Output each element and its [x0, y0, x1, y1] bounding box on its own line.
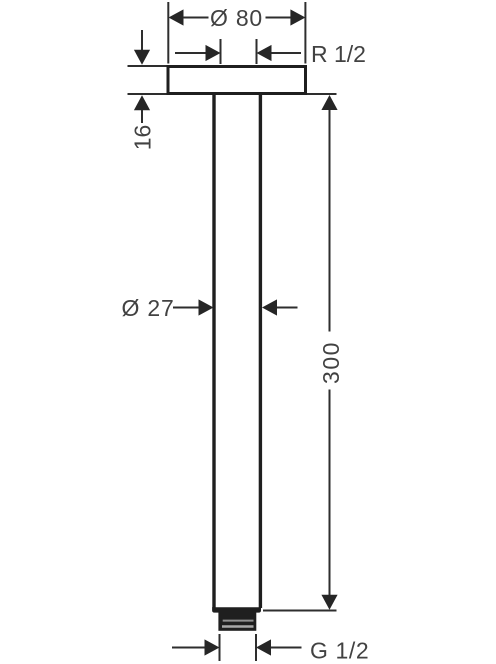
- dimension line 300 lower: [329, 390, 331, 597]
- label dia 80: [210, 5, 263, 31]
- arrow left dia80: [169, 9, 184, 25]
- extension line right R12: [256, 39, 258, 64]
- extension line flange bottom left: [128, 93, 167, 95]
- arrow down 16: [134, 50, 150, 65]
- pipe wall left: [212, 94, 215, 608]
- dimension 16 lower line: [141, 110, 143, 123]
- arrow up 16: [134, 95, 150, 110]
- extension line left G12: [219, 634, 221, 661]
- dimension line R12 right segment: [272, 52, 302, 54]
- label dia 27: [122, 295, 175, 321]
- dimension line dia80 right segment: [266, 17, 292, 19]
- arrow inward right R12: [257, 45, 272, 61]
- svg-text:R 1/2: R 1/2: [311, 41, 366, 67]
- label 300 rotated: [318, 341, 344, 384]
- pipe end cap: [212, 607, 261, 612]
- thread groove lower: [222, 625, 254, 628]
- arrow inward left R12: [206, 45, 221, 61]
- extension line left R12: [220, 39, 222, 64]
- dimension line G12 left segment: [172, 647, 205, 649]
- arrow inward left G12: [205, 639, 220, 655]
- svg-text:G 1/2: G 1/2: [310, 637, 369, 663]
- label 16 rotated: [130, 125, 156, 151]
- arrow inward right G12: [256, 639, 271, 655]
- svg-text:300: 300: [318, 341, 344, 384]
- flange plate: [168, 67, 306, 94]
- extension line flange bottom right: [307, 93, 337, 95]
- leader line dia27 right: [277, 307, 298, 309]
- extension line left of dia80: [167, 2, 169, 64]
- pipe wall right: [259, 94, 262, 608]
- arrow up 300: [321, 95, 337, 110]
- extension line right G12: [255, 634, 257, 661]
- extension line pipe end right: [263, 610, 337, 612]
- arrow down 300: [321, 595, 337, 610]
- dimension line R12 left segment: [175, 52, 206, 54]
- extension line flange top left: [128, 65, 167, 67]
- thread groove upper: [223, 620, 254, 622]
- svg-text:Ø 80: Ø 80: [210, 5, 263, 31]
- dimension line G12 right segment: [271, 647, 302, 649]
- thread fitting body: [218, 612, 256, 631]
- dimension 16 upper line: [141, 30, 143, 51]
- arrow left dia27: [262, 299, 277, 315]
- label R 1/2: [311, 41, 366, 67]
- svg-text:Ø 27: Ø 27: [122, 295, 175, 321]
- extension line right of dia80: [304, 2, 306, 64]
- dimension line 300 upper: [329, 110, 331, 332]
- arrow right dia27: [199, 299, 214, 315]
- arrow right dia80: [290, 9, 305, 25]
- svg-text:16: 16: [130, 125, 156, 151]
- leader line dia27 left: [173, 307, 200, 309]
- dimension line dia80 left segment: [183, 17, 209, 19]
- label G 1/2: [310, 637, 369, 663]
